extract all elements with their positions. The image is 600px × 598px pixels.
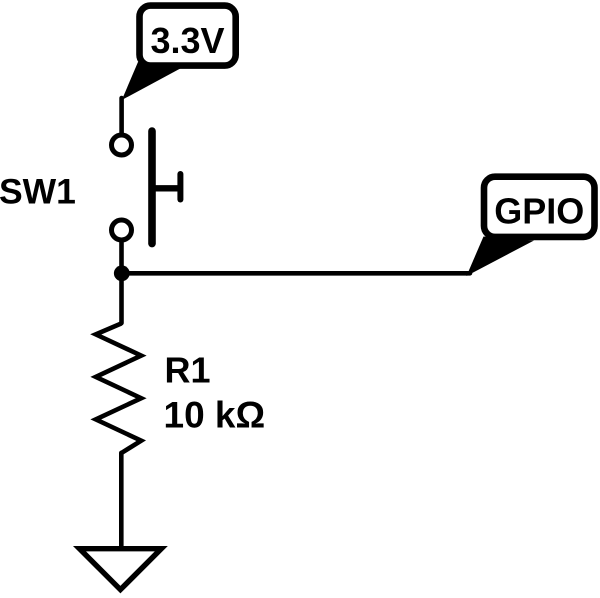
switch SW1 actuator cap	[177, 174, 183, 200]
wire resistor to ground	[119, 453, 124, 549]
switch SW1 actuator stem	[152, 185, 179, 191]
signal flag GPIO box	[484, 177, 595, 237]
wire switch bottom terminal to resistor	[119, 243, 124, 324]
wire node to GPIO flag	[122, 271, 471, 276]
svg-text:3.3V: 3.3V	[150, 20, 224, 61]
wire flag to switch top terminal	[119, 98, 124, 134]
switch SW1 bar	[148, 131, 156, 244]
resistor R1 zigzag	[96, 323, 141, 453]
ground symbol	[80, 549, 162, 590]
svg-text:10 kΩ: 10 kΩ	[164, 395, 266, 436]
power flag 3.3V box	[140, 6, 236, 66]
svg-text:GPIO: GPIO	[494, 191, 584, 232]
svg-text:R1: R1	[165, 350, 211, 391]
junction node	[114, 265, 130, 281]
switch SW1 bottom terminal circle	[112, 220, 132, 240]
power flag 3.3V tail	[122, 62, 184, 100]
svg-text:SW1: SW1	[0, 172, 76, 212]
signal flag GPIO tail	[467, 237, 535, 277]
switch SW1 top terminal circle	[112, 135, 132, 155]
